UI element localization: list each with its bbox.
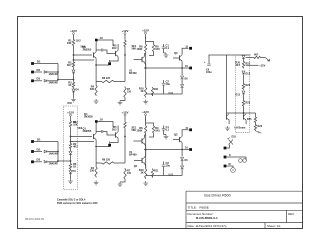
wire base feed2 b [71,141,95,143]
resistor Ra4 [95,65,97,82]
resistor Rb8 [145,125,147,134]
resistor Rb4 [95,147,97,164]
svg-text:330: 330 [90,88,95,91]
resistor R23 [242,100,244,108]
dashed box LH Beam [236,55,250,133]
svg-text:LH Beam: LH Beam [235,127,247,130]
svg-text:D12: D12 [246,73,251,76]
svg-text:+12V: +12V [142,110,149,114]
svg-text:2K2: 2K2 [112,129,117,132]
capacitor Ca3 [101,49,102,52]
svg-text:JU: JU [100,36,103,40]
svg-text:+12V: +12V [122,29,129,33]
diode D12 [242,71,245,74]
wire rail3 split a [145,37,147,42]
svg-text:D2: D2 [37,68,41,72]
resistor Ra5 [124,40,126,48]
svg-text:Q3: Q3 [174,133,178,137]
svg-text:1N4148: 1N4148 [49,151,59,155]
diode Db4 [70,150,72,152]
svg-text:JU: JU [100,118,103,122]
zener D15 [228,138,234,145]
connector pin J1-b3 [31,160,34,163]
diode chain D11 [243,54,245,56]
resistor R26 [254,124,256,132]
ground rail2 a [120,99,125,101]
svg-text:Sheet: 1/1: Sheet: 1/1 [267,224,281,228]
branch2 wire [246,64,259,66]
jumper pin JPa1 [95,39,98,42]
svg-text:Q3: Q3 [174,51,178,55]
ground Ca1 [164,52,167,54]
resistor Rb5 [124,121,126,129]
capacitor Ca1 [163,44,165,47]
transistor Qa3 [179,55,181,60]
svg-text:R22: R22 [246,84,251,87]
wire chain bottom [243,107,245,114]
diode Da2 [44,71,47,74]
ground Q9 [225,126,230,130]
svg-text:Date: 11/Nov/2012 03:54:37p: Date: 11/Nov/2012 03:54:37p [188,224,227,228]
dashed box SOL option [63,106,77,190]
wire cross [227,112,256,114]
svg-text:R25: R25 [247,118,252,121]
svg-text:2K2: 2K2 [112,47,117,50]
svg-text:R11: R11 [154,88,159,91]
wire input bus b [57,142,59,162]
capacitor Ca2 [163,80,165,83]
svg-text:4K7: 4K7 [235,64,240,67]
ground rail3 a [143,100,148,104]
wire base feed b [71,136,93,138]
output pin Pa1 [189,47,192,50]
pin J2-2 [224,156,227,159]
wire left rail [226,55,228,110]
transistor Q6 [141,158,143,163]
diode Db6 [181,150,183,157]
svg-text:+12V: +12V [122,110,129,114]
ground Cb1 [164,134,167,136]
connector pin J1-a2 [31,71,34,74]
sheet border frame [18,17,303,229]
svg-text:1N4148: 1N4148 [49,162,59,166]
diode Db5 [69,171,72,174]
svg-text:100u: 100u [206,71,212,74]
pin J2-3 [224,165,227,168]
transistor Qa4 [141,57,143,62]
svg-text:1K5: 1K5 [155,48,160,51]
svg-text:1K5: 1K5 [155,130,160,133]
ground rail2 b [120,180,125,182]
ground chain1 a [71,98,76,102]
wire base feed2 a [74,59,95,61]
resistor R21 [242,61,244,69]
svg-text:D13: D13 [235,94,240,97]
resistor Rb7 [124,168,126,180]
transistor Qb4 [141,138,143,143]
svg-text:M: M [229,163,231,166]
diode Da5 [72,89,75,92]
svg-text:2N3055: 2N3055 [83,49,92,52]
diode Db2 [44,150,47,153]
capacitor Cb2 [163,162,165,165]
arrow gnd right [256,131,262,133]
wire rail3 b [145,134,147,150]
resistor Rb2 [69,143,71,150]
output pin Pb2 [189,148,192,151]
lamp LP1 [239,159,243,163]
connector pin J1-b1 [31,140,34,143]
svg-text:1K: 1K [68,84,71,87]
svg-text:R26: R26 [258,125,263,128]
svg-text:100K: 100K [137,48,143,51]
svg-text:D16: D16 [68,102,73,105]
svg-text:2N3055: 2N3055 [83,130,92,133]
svg-text:D15: D15 [232,135,237,138]
diode Da4 [73,68,75,70]
arrow off-page [266,58,270,62]
transistor Qb3 [179,137,181,142]
connector pin J1-b2 [31,150,34,153]
svg-text:+12V: +12V [70,29,77,33]
output pin Pa2 [189,67,192,70]
diode Da3 [44,80,47,83]
svg-text:R6 220: R6 220 [102,77,111,80]
resistor Rb3 [69,163,71,171]
wire rail3 split b [145,119,147,124]
svg-text:4K7: 4K7 [67,64,72,67]
svg-text:D2: D2 [37,147,41,151]
svg-text:0.01: 0.01 [169,174,174,177]
svg-text:0.1: 0.1 [166,46,170,50]
svg-text:+12V: +12V [142,28,149,32]
wire chain1 b [70,128,72,143]
resistor Rb9 [152,125,154,134]
wire chain1 a [73,47,75,62]
connector pin J1-a3 [31,79,34,82]
svg-text:100K: 100K [137,130,143,133]
svg-text:1N4148: 1N4148 [49,81,59,85]
svg-text:1K: 1K [73,166,76,169]
wire emitter b [96,146,109,148]
wire output bus a [144,67,189,69]
wire top feed [209,54,251,56]
svg-text:Bus Driver R600: Bus Driver R600 [204,194,230,198]
svg-text:BF469: BF469 [129,72,137,75]
transistor Qa2 [115,51,117,56]
wire rail3 down a [145,68,147,87]
resistor Ra2 [72,61,74,68]
transistor Q9 [226,114,228,119]
svg-text:0.1: 0.1 [166,128,170,132]
diode Da6 [181,68,183,75]
wire emitter bus b [146,175,182,177]
svg-text:10u: 10u [166,164,171,168]
capacitor Cb1 [163,126,165,129]
svg-text:2N3055: 2N3055 [84,116,93,119]
resistor Ra3 [72,81,74,89]
ground Qa1 [94,99,99,103]
wire right rail [255,113,257,116]
svg-text:BF469: BF469 [129,154,137,157]
svg-text:10u: 10u [166,82,171,86]
resistor Rb10 [145,168,147,179]
pin TPb1 [108,144,111,147]
wire emitter a [96,64,109,66]
svg-text:150: 150 [127,91,132,94]
wire rail3 a [145,53,147,69]
ground chain1 b [68,179,73,183]
svg-text:D1: D1 [37,60,41,64]
svg-text:D1: D1 [37,138,41,142]
resistor Ra8 [145,44,147,53]
resistor R22 [242,83,244,91]
diode Db3 [44,161,47,164]
svg-text:TITLE: R600E: TITLE: R600E [188,206,209,210]
svg-text:10K: 10K [67,42,72,45]
capacitor C9 [208,55,210,64]
wire rail3 down b [145,150,147,169]
svg-text:PCB revision for SOL variant i: PCB revision for SOL variant is D16 [57,202,98,205]
transistor Qb1 [93,134,95,139]
svg-text:1K2: 1K2 [76,40,81,43]
svg-text:R6 220: R6 220 [102,159,111,162]
wire rail2 b [124,129,126,137]
svg-text:1K: 1K [140,171,143,175]
svg-text:D3: D3 [37,77,41,81]
svg-text:R11: R11 [154,170,159,173]
svg-text:K: K [229,154,231,157]
resistor R24 horizontal [253,56,262,58]
wire rail2 a [124,48,126,56]
connector pin J1-a1 [31,62,34,65]
resistor Ra9 [152,44,154,53]
svg-text:1N4148: 1N4148 [49,72,59,76]
svg-text:330: 330 [90,170,95,173]
transistor Q10 [243,114,245,119]
resistor Rb1 [69,120,71,128]
resistor R25 [254,116,256,124]
svg-text:4K7: 4K7 [254,53,259,56]
resistor Ra11 [151,87,153,96]
svg-text:0.01: 0.01 [169,92,174,95]
title block frame [186,191,303,228]
svg-text:1K: 1K [140,89,143,93]
wire input bus a [57,64,59,81]
svg-text:R23: R23 [246,102,251,105]
diode D13 [242,91,245,94]
svg-text:+12V: +12V [259,63,265,67]
resistor Ra10 [145,87,147,98]
resistor Rb6 horizontal [96,162,100,164]
svg-text:+12V: +12V [67,110,74,114]
jumper pin JPb1 [95,120,98,123]
svg-text:RS-D16-0004-B1: RS-D16-0004-B1 [25,218,45,221]
motor M1 [231,168,236,173]
svg-text:REV:: REV: [288,212,295,216]
resistor Ra6 horizontal [96,81,100,83]
transistor Qa1 [93,52,95,57]
wire emitter bus a [146,93,182,95]
resistor Rb11 [151,169,153,178]
pin J2-1 [224,147,227,150]
svg-text:B-CB-R600-0-1: B-CB-R600-0-1 [196,216,218,220]
branch right wire [246,57,253,59]
transistor Qb2 [115,132,117,137]
wire to arrow [262,57,266,59]
pin TPa1 [108,62,111,65]
wire base feed a [74,54,93,56]
ground Qb1 [94,181,99,185]
svg-text:150: 150 [127,172,132,175]
capacitor Cb3 [101,130,102,133]
wire output bus b [144,149,189,151]
resistor Ra1 [72,39,74,47]
output pin Pb1 [189,128,192,131]
resistor Ra7 [124,87,126,99]
svg-text:D3: D3 [37,158,41,162]
ground rail3 b [143,181,148,185]
